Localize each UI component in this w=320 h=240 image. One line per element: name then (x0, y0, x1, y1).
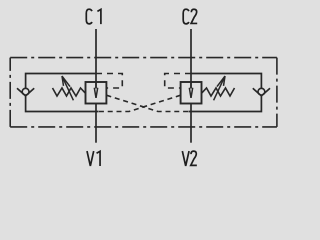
port label V1 (87, 151, 100, 166)
adjustable spring of valve 1 (53, 88, 86, 96)
flow arrow inside valve 2 (189, 82, 192, 98)
pilot line: valve 1 to V2 (dashed cross) (106, 95, 191, 111)
pilot line: C2 to valve 2 spring side (dashed) (165, 74, 191, 89)
wire: port V1 line (95, 104, 97, 143)
pilot line: C1 to valve 1 spring side (dashed) (96, 74, 122, 89)
valve body V1 (counterbalance element) (86, 82, 107, 104)
flow arrow inside valve 1 (94, 82, 97, 98)
wire: right loop (C2 to V2 bypass) (189, 74, 262, 112)
port label V2 (182, 151, 197, 166)
port label C2 (183, 9, 197, 24)
check valve CV2 (253, 88, 270, 96)
check valve CV1 (17, 88, 34, 96)
adjustment arrow across spring 2 (214, 76, 225, 100)
wire: port V2 line (190, 104, 192, 143)
valve assembly phantom border (10, 58, 277, 127)
wire: port C2 line (190, 29, 192, 89)
adjustment arrow across spring 1 (62, 76, 73, 100)
wire: left loop (C1 to V1 bypass) (26, 74, 99, 112)
pilot line: valve 2 to V1 (dashed cross) (96, 95, 181, 111)
port label C1 (86, 9, 101, 24)
adjustable spring of valve 2 (202, 88, 235, 96)
valve body V2 (counterbalance element) (181, 82, 202, 104)
wire: port C1 line (95, 29, 97, 89)
